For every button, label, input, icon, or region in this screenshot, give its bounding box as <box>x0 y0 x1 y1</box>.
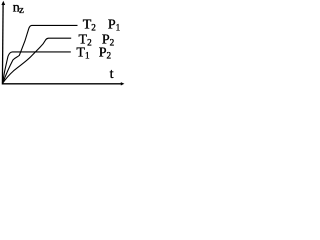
svg-text:t: t <box>110 67 114 82</box>
